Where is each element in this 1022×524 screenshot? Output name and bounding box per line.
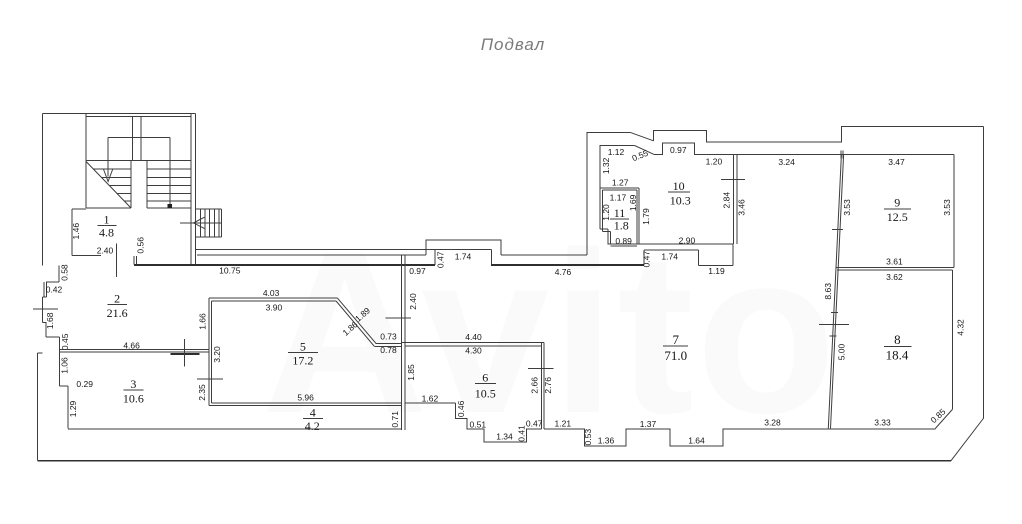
svg-text:3.33: 3.33: [874, 418, 891, 428]
svg-text:1.62: 1.62: [422, 393, 439, 403]
svg-text:4.40: 4.40: [465, 332, 482, 342]
svg-text:21.6: 21.6: [107, 306, 128, 320]
svg-text:5: 5: [300, 339, 306, 353]
svg-text:0.56: 0.56: [136, 237, 146, 254]
svg-text:0.58: 0.58: [59, 264, 69, 281]
svg-text:3.28: 3.28: [764, 418, 781, 428]
svg-text:1.32: 1.32: [601, 157, 611, 174]
svg-text:0.78: 0.78: [380, 345, 397, 355]
svg-text:0.53: 0.53: [583, 429, 593, 446]
svg-text:4: 4: [310, 406, 316, 420]
svg-text:0.89: 0.89: [615, 236, 632, 246]
svg-text:1.27: 1.27: [612, 178, 629, 188]
svg-text:5.00: 5.00: [837, 343, 847, 360]
svg-text:4.32: 4.32: [955, 319, 965, 336]
svg-text:4.2: 4.2: [305, 419, 320, 433]
svg-text:0.47: 0.47: [641, 251, 651, 268]
svg-text:2.84: 2.84: [721, 192, 731, 209]
svg-text:3.61: 3.61: [886, 257, 903, 267]
svg-text:12.5: 12.5: [887, 210, 908, 224]
svg-text:17.2: 17.2: [292, 354, 313, 368]
svg-text:4.03: 4.03: [263, 288, 280, 298]
svg-text:3.46: 3.46: [736, 199, 746, 216]
svg-text:3.24: 3.24: [778, 157, 795, 167]
svg-text:3.20: 3.20: [212, 346, 222, 363]
svg-text:0.47: 0.47: [436, 251, 446, 268]
svg-text:10.6: 10.6: [123, 391, 144, 405]
svg-text:0.29: 0.29: [76, 379, 93, 389]
svg-text:4.76: 4.76: [555, 267, 572, 277]
svg-text:3.90: 3.90: [266, 303, 283, 313]
svg-text:4.8: 4.8: [99, 226, 114, 240]
svg-text:5.96: 5.96: [297, 392, 314, 402]
svg-text:1.85: 1.85: [406, 364, 416, 381]
svg-text:1.66: 1.66: [198, 313, 208, 330]
svg-text:1.34: 1.34: [496, 432, 513, 442]
svg-text:6: 6: [482, 371, 488, 385]
svg-text:2.35: 2.35: [197, 384, 207, 401]
svg-text:2.90: 2.90: [679, 236, 696, 246]
svg-text:10.75: 10.75: [219, 266, 241, 276]
svg-text:8.63: 8.63: [823, 283, 833, 300]
svg-text:3.47: 3.47: [888, 157, 905, 167]
svg-text:1.12: 1.12: [608, 147, 625, 157]
svg-text:1.74: 1.74: [661, 251, 678, 261]
svg-text:0.47: 0.47: [526, 419, 543, 429]
svg-text:7: 7: [673, 332, 680, 347]
svg-text:1.64: 1.64: [688, 435, 705, 445]
svg-text:4.30: 4.30: [465, 346, 482, 356]
svg-text:2: 2: [114, 292, 120, 306]
svg-text:Подвал: Подвал: [481, 35, 546, 54]
svg-text:1.20: 1.20: [601, 204, 611, 221]
svg-text:0.71: 0.71: [390, 411, 400, 428]
svg-text:0.42: 0.42: [46, 285, 63, 295]
svg-text:0.97: 0.97: [670, 145, 687, 155]
svg-text:10.3: 10.3: [670, 193, 691, 207]
svg-text:10.5: 10.5: [475, 386, 496, 400]
svg-text:1.29: 1.29: [68, 400, 78, 417]
svg-text:9: 9: [894, 196, 900, 210]
svg-text:0.85: 0.85: [929, 406, 948, 425]
svg-text:1.68: 1.68: [45, 312, 55, 329]
svg-text:1.69: 1.69: [628, 194, 638, 211]
svg-text:0.46: 0.46: [456, 400, 466, 417]
svg-text:1.21: 1.21: [555, 418, 572, 428]
svg-text:3.53: 3.53: [942, 199, 952, 216]
svg-text:0.51: 0.51: [470, 419, 487, 429]
svg-text:3.62: 3.62: [886, 272, 903, 282]
svg-text:1.06: 1.06: [60, 357, 70, 374]
svg-text:18.4: 18.4: [886, 348, 909, 363]
svg-text:1.17: 1.17: [610, 192, 627, 202]
svg-text:1.74: 1.74: [455, 251, 472, 261]
svg-text:1.79: 1.79: [641, 208, 651, 225]
svg-text:1.8: 1.8: [614, 218, 629, 232]
svg-text:0.55: 0.55: [630, 148, 649, 164]
svg-text:0.97: 0.97: [409, 266, 426, 276]
svg-text:0.73: 0.73: [380, 331, 397, 341]
svg-text:71.0: 71.0: [664, 348, 687, 363]
svg-text:4.66: 4.66: [123, 341, 140, 351]
svg-text:2.40: 2.40: [408, 293, 418, 310]
svg-text:2.66: 2.66: [530, 377, 540, 394]
svg-text:0.45: 0.45: [60, 333, 70, 350]
svg-text:8: 8: [894, 332, 901, 347]
svg-text:1.20: 1.20: [706, 157, 723, 167]
svg-text:1.37: 1.37: [640, 419, 657, 429]
svg-text:2.76: 2.76: [543, 377, 553, 394]
svg-text:3: 3: [130, 377, 136, 391]
svg-text:1: 1: [104, 213, 110, 227]
svg-text:2.40: 2.40: [97, 246, 114, 256]
svg-text:10: 10: [673, 179, 685, 193]
svg-text:1.46: 1.46: [71, 223, 81, 240]
svg-text:3.53: 3.53: [842, 199, 852, 216]
svg-text:1.36: 1.36: [598, 435, 615, 445]
svg-text:1.19: 1.19: [708, 266, 725, 276]
